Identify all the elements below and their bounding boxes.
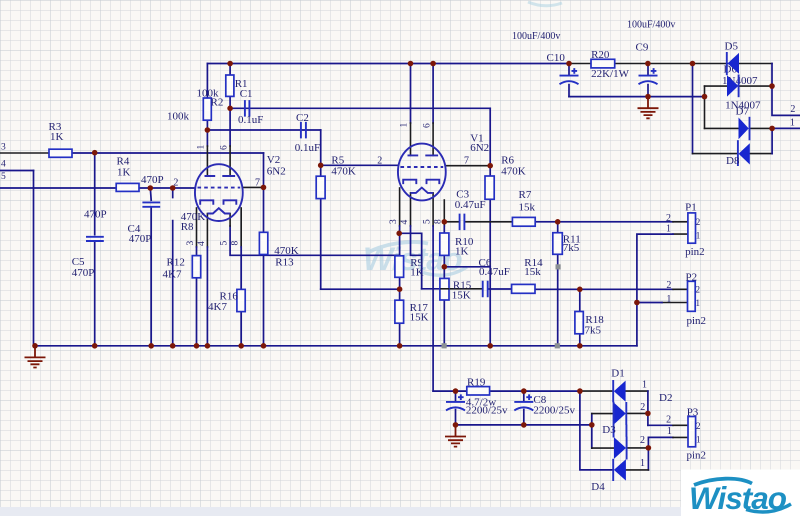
wire V2 pin6 pin <box>229 146 231 176</box>
svg-text:1: 1 <box>640 458 645 469</box>
wire through R15 body <box>441 288 449 290</box>
wire bridge D7 row <box>705 127 773 129</box>
svg-text:C9: C9 <box>636 41 649 53</box>
svg-text:1: 1 <box>666 294 671 305</box>
svg-text:100k: 100k <box>167 110 190 122</box>
wire output through R15 <box>440 288 482 290</box>
wire P1 pin1 to ground rail <box>637 234 673 346</box>
wire R6 and ground drop x490 <box>489 166 491 346</box>
wire heater supply rail <box>433 390 580 392</box>
wire R2 branch x207 <box>206 64 208 147</box>
wire C7 C8 ground wire <box>456 424 592 426</box>
wire bridge AC1 drop x692.5 <box>692 64 694 154</box>
wire input pin5 / V2 grid <box>0 187 195 189</box>
gray squares <box>442 264 561 348</box>
wire V1 pin5 pin <box>432 193 434 226</box>
svg-text:0.1uF: 0.1uF <box>238 114 263 126</box>
svg-text:R12: R12 <box>167 257 185 269</box>
capacitor C1 <box>245 100 250 117</box>
resistor R4 <box>116 183 139 191</box>
wire V2 pin4 pin <box>206 214 208 248</box>
resistor R7 <box>512 217 535 226</box>
svg-text:D2: D2 <box>659 392 672 404</box>
svg-text:D3: D3 <box>602 424 616 436</box>
svg-text:0.47uF: 0.47uF <box>479 266 510 278</box>
capacitor C5 <box>86 237 104 241</box>
resistor R18 <box>575 312 583 334</box>
svg-text:22K/1W: 22K/1W <box>591 68 630 80</box>
connector inner pin numbers <box>696 217 701 445</box>
wire input pin4 stub <box>0 170 34 172</box>
svg-text:470P: 470P <box>72 267 95 279</box>
svg-text:6: 6 <box>423 123 433 128</box>
wire P1 pin1 stub <box>673 233 688 235</box>
svg-text:7k5: 7k5 <box>563 242 580 254</box>
wire V2 pin3 to R12 <box>196 247 198 346</box>
wire D2 cathode row <box>627 412 648 414</box>
capacitor C9 electrolytic <box>639 68 658 84</box>
wire P3 pin2 stub <box>648 424 673 426</box>
wire bridge D8 row <box>693 153 773 155</box>
capacitor C10 electrolytic <box>560 68 579 84</box>
svg-text:1K: 1K <box>117 167 131 179</box>
svg-text:2: 2 <box>173 177 178 188</box>
Wistao logo white box <box>681 470 800 516</box>
svg-text:P1: P1 <box>685 201 697 213</box>
svg-text:2: 2 <box>790 104 795 115</box>
wire output C6 to R14 <box>488 288 673 290</box>
wire C4 branch <box>149 188 152 346</box>
svg-text:0.47uF: 0.47uF <box>455 199 486 211</box>
resistor R16 <box>237 289 245 311</box>
diode D4 <box>613 459 626 481</box>
connector P1 <box>688 213 696 243</box>
svg-text:5: 5 <box>1 172 6 182</box>
svg-text:8: 8 <box>434 219 444 224</box>
wire P2 pin2 stub <box>673 288 688 290</box>
svg-text:4K7: 4K7 <box>163 268 182 280</box>
wire C9 leads <box>647 64 649 97</box>
connector P3 <box>688 417 696 447</box>
svg-text:R19: R19 <box>467 376 486 388</box>
wire C8 leads <box>523 391 525 425</box>
resistor R14 <box>512 284 535 293</box>
svg-text:P2: P2 <box>686 271 698 283</box>
svg-text:V2: V2 <box>267 154 280 166</box>
svg-text:470K: 470K <box>331 166 356 178</box>
svg-text:1: 1 <box>696 435 701 445</box>
capacitor C4 <box>142 202 160 206</box>
svg-text:R7: R7 <box>519 189 532 201</box>
wire R18 drop <box>579 289 581 346</box>
capacitor C6 <box>483 281 488 298</box>
svg-text:470P: 470P <box>84 209 107 221</box>
wire heater to D1 <box>580 390 648 392</box>
svg-text:R8: R8 <box>181 221 194 233</box>
svg-text:C1: C1 <box>240 88 253 100</box>
svg-text:R20: R20 <box>591 49 610 61</box>
svg-text:5: 5 <box>423 219 433 224</box>
wire R5 drop <box>320 165 322 289</box>
wire V2 pin5 pin <box>229 214 231 227</box>
svg-text:D8: D8 <box>726 155 740 167</box>
svg-text:D4: D4 <box>591 481 605 493</box>
capacitor C8 electrolytic <box>514 394 533 410</box>
svg-text:1K: 1K <box>410 266 424 278</box>
resistor R3 <box>49 149 72 157</box>
wire P3 pin1 net <box>648 437 673 470</box>
wire C10 C9 ground return <box>569 96 705 98</box>
resistor R1 <box>226 75 234 96</box>
wire R5 return to cathode <box>321 288 400 290</box>
wire R13 bottom to rail <box>263 255 265 346</box>
capacitor C3 <box>460 214 465 231</box>
svg-text:1: 1 <box>400 123 410 128</box>
wire C2 to V1 grid node <box>320 130 322 165</box>
svg-text:6: 6 <box>220 145 230 150</box>
resistor R19 <box>467 387 490 395</box>
svg-text:1: 1 <box>696 298 701 308</box>
svg-text:1: 1 <box>197 145 207 150</box>
wire V2 pin7 stub <box>243 186 264 188</box>
wire V2 pin3 pin <box>196 208 198 247</box>
capacitor C7 electrolytic <box>446 394 465 410</box>
wire V2 pin8 pin <box>240 208 242 247</box>
diode D5 <box>727 52 739 75</box>
svg-text:6N2: 6N2 <box>267 166 286 178</box>
capacitor C2 <box>301 122 306 138</box>
wire R8 branch <box>172 188 174 346</box>
svg-text:15k: 15k <box>519 201 536 213</box>
resistor R6 <box>485 176 494 199</box>
wire C2 coupling <box>207 129 320 131</box>
wire input pin3 stub <box>0 152 49 154</box>
watermark Wistao logo (center, faint) <box>363 241 467 277</box>
wire bridge mid drop x704.5 <box>704 86 706 128</box>
tube V1 6N2 <box>398 144 446 201</box>
svg-text:15K: 15K <box>410 312 429 324</box>
svg-text:2: 2 <box>640 435 645 446</box>
svg-text:D7: D7 <box>736 105 750 117</box>
resistor R15 <box>440 278 449 300</box>
wire D3 output row <box>627 447 649 449</box>
svg-text:D1: D1 <box>611 368 624 380</box>
Wistao logo <box>689 479 791 516</box>
svg-text:3: 3 <box>389 219 399 224</box>
svg-text:2: 2 <box>696 421 701 431</box>
wire V2 pin4 to rail <box>206 247 208 346</box>
diode D3 <box>614 437 627 460</box>
ground symbol heater <box>445 425 466 447</box>
wire V1 grid <box>321 164 399 166</box>
wire B+ rail right part <box>569 63 772 65</box>
svg-text:2: 2 <box>696 285 701 295</box>
wire V1 pin3 to R9 <box>399 226 401 346</box>
wire P2 pin1 tap <box>637 302 662 304</box>
svg-text:D5: D5 <box>725 41 739 53</box>
bottom edge band <box>0 507 800 516</box>
diode D7 <box>739 117 750 141</box>
wire C3 net <box>444 221 512 223</box>
wire R10 bottom tie <box>444 266 490 268</box>
resistor R13 <box>259 232 267 254</box>
svg-text:1: 1 <box>696 231 701 241</box>
wire D4 output row <box>626 469 649 471</box>
wire V2 pin8 to R16 to rail <box>240 247 242 346</box>
svg-text:R2: R2 <box>211 96 224 108</box>
wire heater left drop to D4 <box>580 391 613 470</box>
wire V1 pin5 down to heater rail <box>432 226 434 391</box>
svg-text:C10: C10 <box>547 52 566 64</box>
diode bridge column joiners D2-D3 <box>614 402 627 438</box>
wire V2 pin1 pin <box>206 146 208 176</box>
wire V1 pin8 to R10 R15 <box>443 226 445 346</box>
wire V1 pin1 from rail <box>410 64 412 124</box>
svg-text:R5: R5 <box>331 154 344 166</box>
svg-text:15k: 15k <box>524 266 541 278</box>
diode D1 <box>613 380 625 402</box>
svg-text:1K: 1K <box>455 246 469 258</box>
wire V1 pin6 pin <box>432 123 434 155</box>
wire R11 drop <box>557 222 559 346</box>
svg-text:3: 3 <box>1 143 6 153</box>
resistor R20 <box>591 59 615 68</box>
wire V1 cathode jog x421.7 <box>399 233 422 288</box>
labels top-left input pins <box>1 143 6 182</box>
svg-text:470K: 470K <box>501 165 526 177</box>
svg-text:6N2: 6N2 <box>470 142 489 154</box>
svg-text:2: 2 <box>377 156 382 167</box>
resistor R12 <box>192 256 200 278</box>
svg-text:2200/25v: 2200/25v <box>533 404 575 416</box>
tube V2 6N2 <box>195 164 243 221</box>
watermark partial arc top edge <box>528 2 562 6</box>
svg-text:100uF/400v: 100uF/400v <box>512 31 560 42</box>
resistor R10 <box>440 233 449 255</box>
wire C7 leads <box>455 391 457 425</box>
diode D6 <box>727 75 739 98</box>
wire bridge D6 row <box>705 85 773 87</box>
svg-text:470P: 470P <box>129 233 152 245</box>
wire output y289 left <box>422 288 440 290</box>
diode D2 <box>614 402 626 425</box>
svg-text:4: 4 <box>197 241 207 246</box>
svg-text:4: 4 <box>400 220 410 225</box>
svg-text:4K7: 4K7 <box>208 301 227 313</box>
resistor R17 <box>395 300 404 323</box>
resistor R11 <box>553 233 563 255</box>
wire V1 pin6 from rail <box>432 64 434 124</box>
wire V1 pin7 stub <box>445 165 490 167</box>
svg-text:5: 5 <box>220 241 230 246</box>
wire V1 pin1 pin <box>410 123 412 155</box>
wire C1 down to V1 pin7 node <box>489 108 491 165</box>
svg-text:100uF/400v: 100uF/400v <box>627 19 675 30</box>
wire V1 pin3 pin <box>399 188 401 226</box>
wire B+ rail <box>207 63 569 65</box>
wire P2 pin1 stub <box>662 302 688 304</box>
wire V1 pin8 pin <box>443 200 445 226</box>
diode D8 <box>738 140 750 166</box>
svg-text:2: 2 <box>666 213 671 224</box>
wire input-down to pin7 node x263.5 <box>263 153 265 232</box>
ground symbol C9 <box>638 97 659 119</box>
svg-text:2200/25v: 2200/25v <box>466 404 508 416</box>
svg-text:C2: C2 <box>296 112 309 124</box>
svg-text:15K: 15K <box>452 290 471 302</box>
wire C10 leads <box>568 64 570 97</box>
svg-text:pin2: pin2 <box>685 246 705 258</box>
wire D1 D2 output column <box>647 391 649 425</box>
wire C1 coupling <box>230 107 490 109</box>
wire R7 to P1 <box>535 221 673 223</box>
connector P2 <box>688 281 696 311</box>
wire V1 pin4 jog <box>411 226 422 255</box>
svg-text:1K: 1K <box>50 131 64 143</box>
svg-text:0.1uF: 0.1uF <box>295 142 320 154</box>
wire ground rail <box>34 345 637 347</box>
svg-text:2: 2 <box>640 402 645 413</box>
wire C5 branch <box>94 153 96 346</box>
resistor R5 <box>316 176 325 198</box>
svg-text:3: 3 <box>186 241 196 246</box>
svg-text:470P: 470P <box>141 174 164 186</box>
wire bridge right column upper <box>772 64 800 116</box>
svg-text:pin2: pin2 <box>687 450 707 462</box>
svg-text:1: 1 <box>790 118 795 129</box>
wire D3 base stub <box>592 447 614 449</box>
svg-text:7: 7 <box>255 177 260 188</box>
svg-text:7k5: 7k5 <box>585 324 602 336</box>
svg-text:2: 2 <box>696 217 701 227</box>
ground symbol main <box>25 346 46 368</box>
wire input net to grid jog <box>72 152 264 154</box>
svg-text:7: 7 <box>464 156 469 167</box>
resistor R9 <box>395 256 404 277</box>
svg-text:470K: 470K <box>274 245 299 257</box>
wire bridge right column lower <box>772 128 800 153</box>
svg-text:pin2: pin2 <box>687 315 707 327</box>
wire pin4 ground drop <box>33 171 35 346</box>
svg-text:8: 8 <box>231 241 241 246</box>
svg-text:2: 2 <box>666 280 671 291</box>
svg-text:1: 1 <box>666 224 671 235</box>
wire R1 branch x230 <box>229 64 231 147</box>
svg-text:1: 1 <box>642 380 647 391</box>
svg-text:P3: P3 <box>687 406 699 418</box>
wire D2 base stub <box>592 413 614 415</box>
wire V2 pin5 to R13 <box>230 226 400 255</box>
wire V1 pin4 pin <box>410 193 412 226</box>
wire P1 pin2 stub <box>673 221 688 223</box>
svg-text:4: 4 <box>1 159 6 169</box>
resistor R2 <box>203 98 211 120</box>
svg-text:R13: R13 <box>275 257 294 269</box>
svg-text:1: 1 <box>667 426 672 437</box>
svg-text:2: 2 <box>666 414 671 425</box>
wire D2 D3 feed column <box>591 414 593 449</box>
